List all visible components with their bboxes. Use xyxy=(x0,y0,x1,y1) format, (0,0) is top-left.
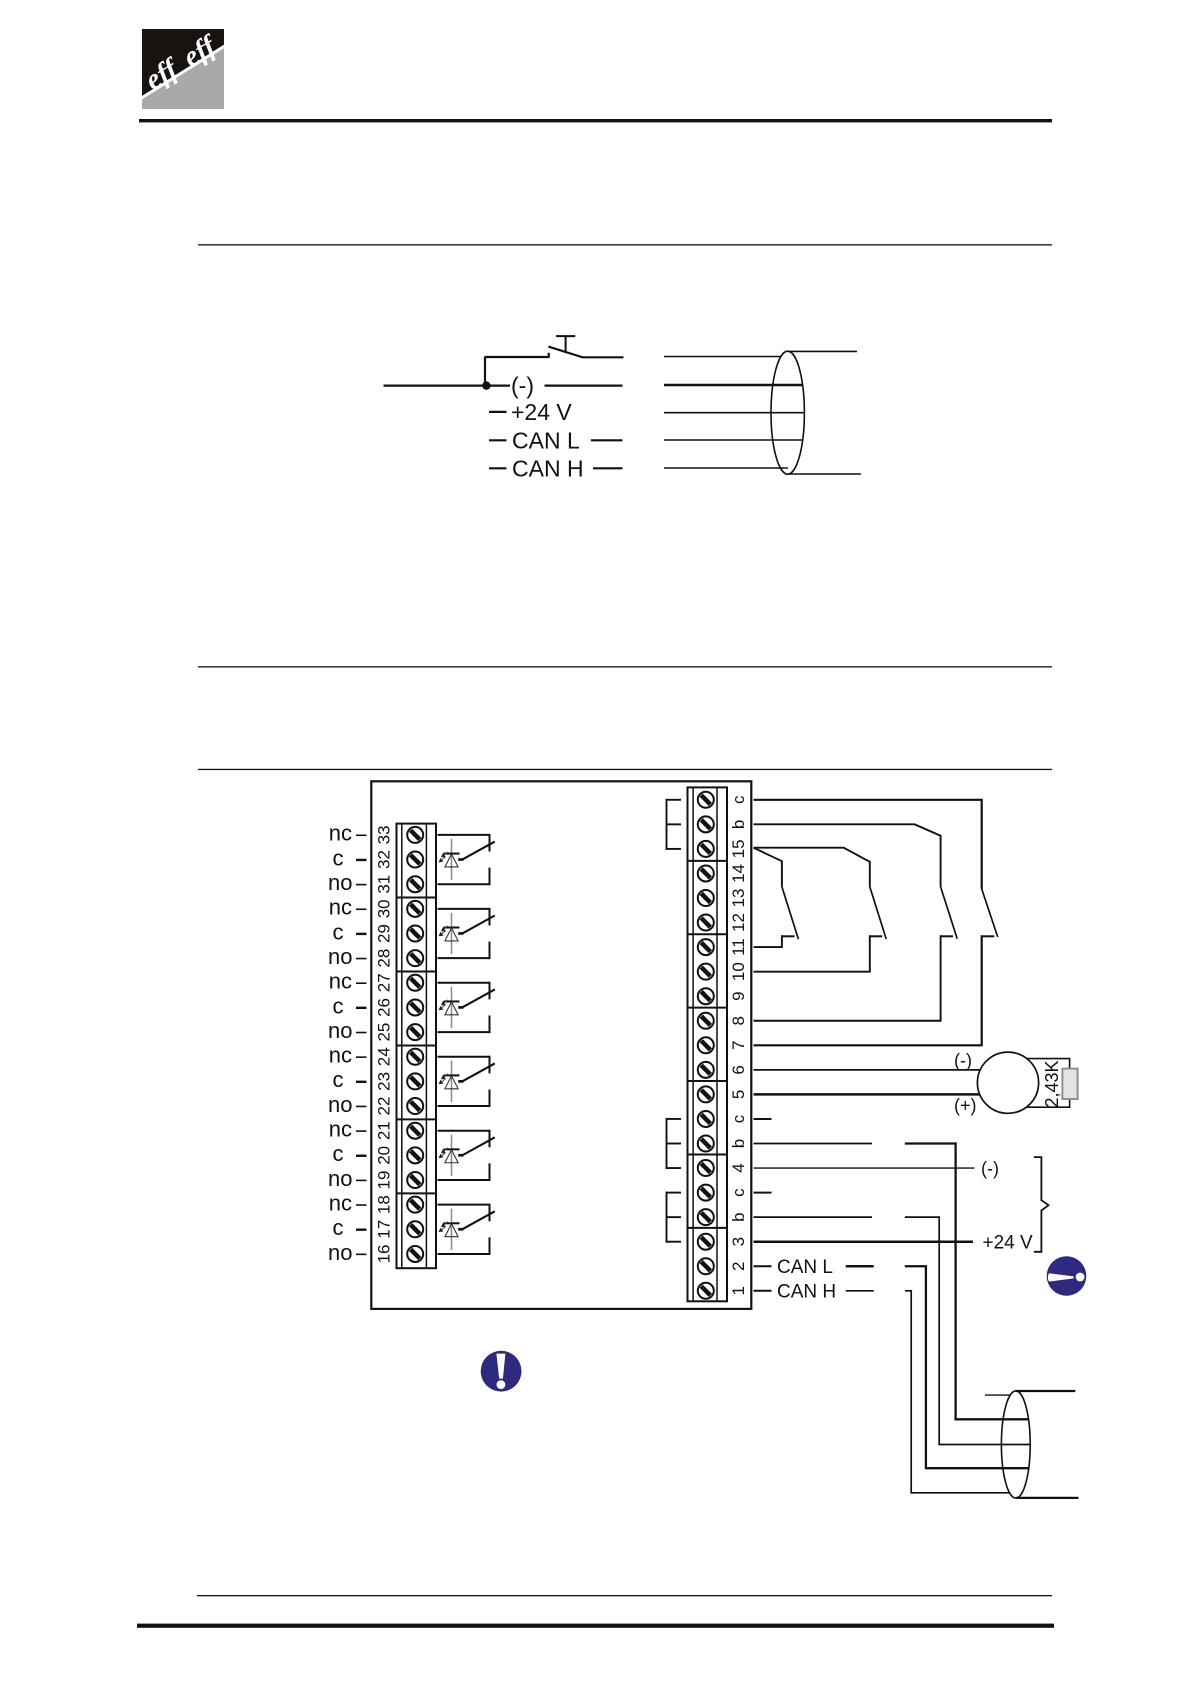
svg-text:30: 30 xyxy=(375,899,394,918)
svg-text:1: 1 xyxy=(729,1286,748,1295)
svg-text:c: c xyxy=(333,845,344,870)
svg-text:24: 24 xyxy=(375,1047,394,1066)
svg-text:CAN H: CAN H xyxy=(777,1281,836,1302)
svg-text:nc: nc xyxy=(329,895,352,920)
svg-text:c: c xyxy=(729,795,748,804)
svg-text:17: 17 xyxy=(375,1220,394,1239)
svg-text:c: c xyxy=(729,1114,748,1123)
svg-text:c: c xyxy=(333,1141,344,1166)
svg-text:32: 32 xyxy=(375,850,394,869)
svg-text:12: 12 xyxy=(729,913,748,932)
svg-text:no: no xyxy=(328,1018,352,1043)
svg-text:no: no xyxy=(328,944,352,969)
svg-text:15: 15 xyxy=(729,839,748,858)
svg-text:+24 V: +24 V xyxy=(983,1232,1034,1253)
svg-text:no: no xyxy=(328,870,352,895)
svg-text:20: 20 xyxy=(375,1146,394,1165)
svg-text:nc: nc xyxy=(329,1043,352,1068)
svg-text:28: 28 xyxy=(375,949,394,968)
svg-text:18: 18 xyxy=(375,1195,394,1214)
svg-text:21: 21 xyxy=(375,1121,394,1140)
svg-text:7: 7 xyxy=(729,1041,748,1050)
svg-text:c: c xyxy=(333,919,344,944)
svg-text:(-): (-) xyxy=(511,373,534,399)
svg-text:CAN L: CAN L xyxy=(512,427,580,453)
svg-text:31: 31 xyxy=(375,875,394,894)
svg-text:b: b xyxy=(729,820,748,829)
svg-text:26: 26 xyxy=(375,998,394,1017)
svg-text:nc: nc xyxy=(329,1190,352,1215)
svg-text:25: 25 xyxy=(375,1023,394,1042)
svg-text:b: b xyxy=(729,1139,748,1148)
svg-text:nc: nc xyxy=(329,1117,352,1142)
svg-text:no: no xyxy=(328,1240,352,1265)
svg-text:29: 29 xyxy=(375,924,394,943)
svg-text:+24 V: +24 V xyxy=(511,399,572,425)
svg-text:22: 22 xyxy=(375,1097,394,1116)
svg-text:27: 27 xyxy=(375,973,394,992)
svg-text:no: no xyxy=(328,1092,352,1117)
svg-text:c: c xyxy=(333,1215,344,1240)
svg-text:9: 9 xyxy=(729,991,748,1000)
svg-text:CAN H: CAN H xyxy=(512,455,584,481)
svg-text:c: c xyxy=(333,1067,344,1092)
svg-text:16: 16 xyxy=(375,1244,394,1263)
svg-text:nc: nc xyxy=(329,821,352,846)
svg-text:23: 23 xyxy=(375,1072,394,1091)
svg-text:14: 14 xyxy=(729,864,748,883)
svg-text:CAN L: CAN L xyxy=(777,1257,833,1278)
svg-text:(+): (+) xyxy=(954,1095,977,1115)
svg-text:6: 6 xyxy=(729,1065,748,1074)
svg-text:5: 5 xyxy=(729,1090,748,1099)
svg-text:(-): (-) xyxy=(954,1050,972,1070)
svg-text:11: 11 xyxy=(729,938,748,956)
svg-text:8: 8 xyxy=(729,1016,748,1025)
svg-text:13: 13 xyxy=(729,889,748,908)
svg-text:2: 2 xyxy=(729,1262,748,1271)
svg-text:c: c xyxy=(333,993,344,1018)
svg-text:10: 10 xyxy=(729,962,748,981)
svg-text:(-): (-) xyxy=(981,1158,999,1178)
svg-text:c: c xyxy=(729,1188,748,1197)
svg-text:b: b xyxy=(729,1212,748,1221)
svg-text:3: 3 xyxy=(729,1237,748,1246)
svg-text:nc: nc xyxy=(329,969,352,994)
svg-text:4: 4 xyxy=(729,1163,748,1172)
svg-text:19: 19 xyxy=(375,1171,394,1190)
svg-text:2,43K: 2,43K xyxy=(1042,1060,1062,1107)
svg-text:33: 33 xyxy=(375,825,394,844)
svg-text:no: no xyxy=(328,1166,352,1191)
